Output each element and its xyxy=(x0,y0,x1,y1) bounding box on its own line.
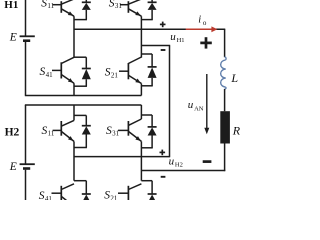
transistor S31 collector xyxy=(128,0,142,4)
battery E (H1) xyxy=(20,36,35,40)
wire H1 output + line xyxy=(74,28,225,30)
transistor S31b gate lead xyxy=(118,129,128,131)
label uH2 xyxy=(169,156,183,169)
label uAN xyxy=(188,99,204,112)
svg-text:E: E xyxy=(9,32,17,44)
diode D41b cathode bar xyxy=(82,193,91,195)
transistor S11 gate lead xyxy=(53,4,62,6)
label S41 (H2) xyxy=(39,190,53,203)
transistor S21 collector xyxy=(128,57,141,64)
transistor S31b collector xyxy=(128,119,141,125)
transistor S41b collector xyxy=(61,184,74,190)
svg-text:i: i xyxy=(198,15,201,26)
svg-text:S: S xyxy=(41,0,47,9)
battery E (H2) xyxy=(20,164,35,168)
wire H2 left rail upper xyxy=(25,105,27,164)
wire H1 left rail lower xyxy=(25,42,27,96)
diode D21 body xyxy=(148,67,157,78)
svg-text:H2: H2 xyxy=(175,162,183,169)
wire S21 emitter to rail xyxy=(140,84,142,96)
svg-text:o: o xyxy=(203,19,207,27)
diode D31b anode wire xyxy=(141,136,152,148)
diode D21 anode wire xyxy=(141,78,152,86)
wire H2 left rail lower xyxy=(25,170,27,200)
diode D11 anode wire xyxy=(74,10,87,20)
transistor S31 gate bar xyxy=(127,1,129,13)
svg-text:u: u xyxy=(170,31,176,43)
wire S41 emitter to rail xyxy=(73,83,75,95)
label S21 xyxy=(105,67,119,80)
label S41 xyxy=(40,66,54,79)
diode D31b body xyxy=(148,127,157,135)
minus load (uAN) xyxy=(203,160,212,163)
svg-text:S: S xyxy=(105,67,111,79)
wire link vertical (H1- to H2+) xyxy=(169,46,171,157)
svg-text:L: L xyxy=(230,71,238,85)
transistor S11b emitter xyxy=(61,131,74,141)
wire node B leg (S31 emitter down) xyxy=(140,16,142,57)
svg-text:S: S xyxy=(39,190,45,200)
svg-text:u: u xyxy=(188,99,194,111)
svg-text:S: S xyxy=(106,125,112,137)
wire S11b top drop xyxy=(73,105,75,120)
wire S11b diode jog xyxy=(74,115,86,125)
transistor S11 emitter xyxy=(61,9,74,16)
resistor R xyxy=(220,111,230,143)
label S11 (H1) xyxy=(41,0,54,10)
diode D11 cathode bar xyxy=(82,1,91,3)
diode D21b cathode bar xyxy=(148,193,157,195)
transistor S21b gate bar xyxy=(127,186,129,200)
diode D11b cathode bar xyxy=(82,125,91,127)
minus uH1 xyxy=(161,49,166,51)
svg-text:S: S xyxy=(104,190,110,200)
wire S21b diode jog xyxy=(141,181,152,194)
svg-text:E: E xyxy=(9,161,17,173)
label H1 xyxy=(4,0,18,11)
svg-text:21: 21 xyxy=(111,71,119,79)
transistor S11b gate bar xyxy=(60,121,62,136)
diode D31 body xyxy=(148,3,157,10)
wire node B to link corner xyxy=(141,45,170,47)
wire H1 left rail upper xyxy=(25,0,27,36)
diode D31 cathode stub xyxy=(151,0,153,2)
transistor S21 gate lead xyxy=(119,70,128,72)
arrow uAN xyxy=(204,74,209,134)
svg-text:S: S xyxy=(42,125,48,137)
transistor S41 gate lead xyxy=(52,69,61,71)
svg-text:H1: H1 xyxy=(177,37,185,44)
diode D31b cathode bar xyxy=(148,126,157,128)
transistor S21b collector xyxy=(128,184,141,190)
label S31 (H2) xyxy=(106,125,120,138)
diode D21 cathode bar xyxy=(148,66,157,68)
wire S41b diode jog xyxy=(74,181,86,194)
wire H2 node A line xyxy=(74,156,170,158)
svg-text:H1: H1 xyxy=(4,0,18,11)
wire H2 node A leg xyxy=(73,141,75,180)
transistor S21 emitter xyxy=(128,75,141,83)
svg-text:11: 11 xyxy=(48,130,55,138)
svg-text:41: 41 xyxy=(46,71,54,79)
diode D31 cathode bar xyxy=(148,1,157,3)
transistor S41 gate bar xyxy=(60,62,62,78)
wire S31b top drop xyxy=(140,105,142,119)
wire H2 output line xyxy=(141,170,225,172)
wire S41 diode jog xyxy=(74,57,86,68)
transistor S41b gate bar xyxy=(60,186,62,200)
svg-text:R: R xyxy=(232,123,240,137)
diode D41 anode wire xyxy=(74,79,87,86)
label H2 xyxy=(5,127,20,139)
svg-text:S: S xyxy=(109,0,115,9)
wire load top corner xyxy=(224,29,226,57)
transistor S41 emitter xyxy=(61,75,74,84)
minus uH2 xyxy=(161,176,166,178)
wire H2 node B leg xyxy=(140,141,142,180)
wire S31b diode jog xyxy=(141,115,152,127)
plus load (uAN) xyxy=(200,37,212,48)
svg-text:u: u xyxy=(169,156,175,168)
svg-text:H2: H2 xyxy=(5,127,20,139)
svg-text:S: S xyxy=(40,66,46,78)
transistor S11b collector xyxy=(61,120,74,126)
svg-text:31: 31 xyxy=(112,130,120,138)
diode D31 anode wire xyxy=(141,10,152,20)
transistor S41 collector xyxy=(61,57,74,63)
svg-text:41: 41 xyxy=(45,195,53,200)
label S11 (H2) xyxy=(42,125,55,138)
diode D11b body xyxy=(82,126,91,134)
plus uH2 xyxy=(160,150,166,156)
wire H2 top rail xyxy=(25,104,142,106)
diode D41b body xyxy=(82,195,91,203)
svg-text:21: 21 xyxy=(110,194,118,200)
diode D21b body xyxy=(148,195,157,203)
label L xyxy=(230,71,238,85)
wire L to R xyxy=(224,89,226,111)
transistor S41b emitter xyxy=(61,196,74,206)
label E (H2) xyxy=(9,161,17,173)
wire node A leg (S11 emitter to S41) xyxy=(73,16,75,57)
transistor S11 gate bar xyxy=(60,1,62,13)
current arrow io xyxy=(186,26,218,32)
wire S21 diode jog xyxy=(141,54,152,67)
diode D11 cathode stub xyxy=(85,0,87,2)
label R xyxy=(232,123,241,137)
inductor L xyxy=(221,57,226,90)
diode D41 cathode bar xyxy=(82,68,91,70)
transistor S11b gate lead xyxy=(53,129,62,131)
transistor S11 collector xyxy=(61,0,74,4)
label io xyxy=(198,15,207,27)
transistor S41b gate lead xyxy=(52,192,62,194)
transistor S31b emitter xyxy=(128,131,141,141)
transistor S31b gate bar xyxy=(127,121,129,136)
svg-text:31: 31 xyxy=(115,2,123,10)
transistor S21 gate bar xyxy=(127,63,129,79)
plus uH1 xyxy=(160,22,166,28)
diode D11 body xyxy=(82,3,91,10)
transistor S31 gate lead xyxy=(120,4,128,6)
transistor S31 emitter xyxy=(128,9,141,16)
wire R to bottom corner xyxy=(224,144,226,172)
label S21 (H2) xyxy=(104,190,118,203)
diode D41 body xyxy=(82,69,91,79)
diode D11b anode wire xyxy=(74,135,87,148)
label E (H1) xyxy=(9,32,17,44)
label S31 (H1) xyxy=(109,0,123,10)
wire H1 bottom rail xyxy=(25,95,142,97)
svg-text:AN: AN xyxy=(194,105,204,112)
svg-text:11: 11 xyxy=(47,2,54,10)
label uH1 xyxy=(170,31,184,44)
transistor S21b gate lead xyxy=(118,192,128,194)
